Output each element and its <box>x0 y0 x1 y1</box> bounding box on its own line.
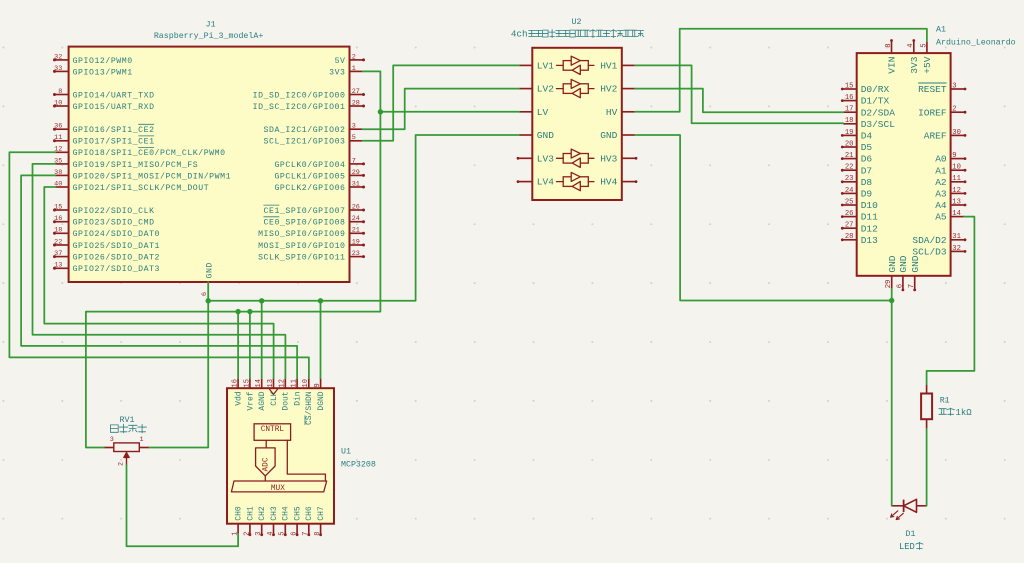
svg-text:Arduino_Leonardo: Arduino_Leonardo <box>936 38 1016 48</box>
svg-text:D7: D7 <box>861 165 872 176</box>
svg-text:GND: GND <box>537 130 554 141</box>
svg-text:33: 33 <box>54 65 62 73</box>
svg-text:A0: A0 <box>935 154 947 165</box>
svg-text:A1: A1 <box>936 26 946 35</box>
svg-text:13: 13 <box>952 198 961 206</box>
svg-text:DGND: DGND <box>317 391 326 410</box>
svg-text:CH2: CH2 <box>258 506 267 521</box>
svg-text:HV2: HV2 <box>600 84 617 95</box>
svg-text:HV3: HV3 <box>600 153 617 164</box>
svg-text:22: 22 <box>54 238 62 246</box>
svg-text:21: 21 <box>352 227 360 235</box>
svg-text:GPIO16/SPI1_CE2: GPIO16/SPI1_CE2 <box>73 125 155 135</box>
svg-text:D0/RX: D0/RX <box>861 84 890 95</box>
svg-text:7: 7 <box>352 157 356 165</box>
svg-text:CH0: CH0 <box>235 506 244 521</box>
svg-text:A4: A4 <box>935 200 947 211</box>
svg-text:RV1: RV1 <box>120 416 135 425</box>
svg-text:CNTRL: CNTRL <box>261 426 285 434</box>
svg-text:R1: R1 <box>940 397 950 406</box>
svg-text:GPIO13/PWM1: GPIO13/PWM1 <box>73 67 133 77</box>
svg-text:22: 22 <box>845 164 854 172</box>
svg-text:3: 3 <box>952 82 956 90</box>
svg-text:GPIO27/SDIO_DAT3: GPIO27/SDIO_DAT3 <box>73 264 160 274</box>
svg-text:D12: D12 <box>861 223 878 234</box>
svg-text:18: 18 <box>845 117 854 125</box>
svg-text:6: 6 <box>896 284 904 288</box>
svg-text:1: 1 <box>352 65 356 73</box>
svg-text:16: 16 <box>845 94 854 102</box>
svg-text:27: 27 <box>845 222 854 230</box>
svg-text:17: 17 <box>845 106 854 114</box>
svg-text:CH7: CH7 <box>317 506 326 521</box>
svg-text:GPCLK0/GPIO04: GPCLK0/GPIO04 <box>274 160 345 170</box>
svg-text:GND: GND <box>898 255 909 272</box>
svg-text:Vref: Vref <box>246 391 255 410</box>
svg-text:5: 5 <box>279 531 287 535</box>
svg-text:28: 28 <box>352 99 360 107</box>
svg-text:5: 5 <box>352 134 356 142</box>
svg-text:LV2: LV2 <box>537 84 554 95</box>
svg-text:3: 3 <box>352 123 356 131</box>
svg-text:13: 13 <box>54 262 62 270</box>
svg-text:12: 12 <box>279 379 287 387</box>
svg-text:LV3: LV3 <box>537 153 554 164</box>
svg-text:6: 6 <box>291 531 299 535</box>
svg-text:25: 25 <box>845 198 854 206</box>
svg-text:9: 9 <box>952 152 956 160</box>
svg-text:HV1: HV1 <box>600 61 617 72</box>
svg-text:CE0_SPI0/GPIO08: CE0_SPI0/GPIO08 <box>264 218 346 228</box>
svg-text:GPIO24/SDIO_DAT0: GPIO24/SDIO_DAT0 <box>73 229 160 239</box>
svg-text:15: 15 <box>243 379 251 387</box>
svg-text:19: 19 <box>845 129 854 137</box>
svg-text:CH4: CH4 <box>282 506 291 521</box>
svg-text:GPCLK1/GPIO05: GPCLK1/GPIO05 <box>274 171 345 181</box>
svg-text:36: 36 <box>54 123 62 131</box>
svg-text:26: 26 <box>352 203 360 211</box>
svg-text:MISO_SPI0/GPIO09: MISO_SPI0/GPIO09 <box>258 229 345 239</box>
svg-text:D1/TX: D1/TX <box>861 96 890 107</box>
svg-text:GND: GND <box>600 130 617 141</box>
svg-text:3V3: 3V3 <box>329 68 345 77</box>
svg-text:11: 11 <box>291 379 299 387</box>
svg-text:16: 16 <box>54 215 62 223</box>
svg-text:20: 20 <box>845 140 854 148</box>
svg-text:2: 2 <box>352 53 356 61</box>
svg-text:D11: D11 <box>861 212 878 223</box>
svg-text:18: 18 <box>54 227 62 235</box>
svg-text:8: 8 <box>58 88 62 96</box>
svg-text:D4: D4 <box>861 131 873 142</box>
svg-text:26: 26 <box>845 210 854 218</box>
svg-text:SCL_I2C1/GPIO03: SCL_I2C1/GPIO03 <box>264 137 346 147</box>
svg-text:GPIO18/SPI1_CE0/PCM_CLK/PWM0: GPIO18/SPI1_CE0/PCM_CLK/PWM0 <box>73 148 226 158</box>
svg-text:10: 10 <box>302 379 310 387</box>
svg-text:LV1: LV1 <box>537 61 554 72</box>
svg-text:12: 12 <box>952 187 961 195</box>
svg-text:Vdd: Vdd <box>235 391 244 406</box>
svg-text:D6: D6 <box>861 154 873 165</box>
svg-text:5V: 5V <box>335 57 346 66</box>
svg-text:D8: D8 <box>861 177 873 188</box>
svg-text:9: 9 <box>314 383 322 387</box>
svg-text:15: 15 <box>845 82 854 90</box>
svg-text:MUX: MUX <box>271 485 285 493</box>
svg-text:GPIO25/SDIO_DAT1: GPIO25/SDIO_DAT1 <box>73 241 160 251</box>
svg-text:GPIO20/SPI1_MOSI/PCM_DIN/PWM1: GPIO20/SPI1_MOSI/PCM_DIN/PWM1 <box>73 171 231 181</box>
svg-text:HV: HV <box>606 107 618 118</box>
svg-text:1kΩ: 1kΩ <box>956 408 973 418</box>
svg-text:LV: LV <box>537 107 549 118</box>
svg-text:29: 29 <box>885 280 893 289</box>
svg-text:7: 7 <box>302 531 310 535</box>
svg-text:ADC: ADC <box>263 457 271 471</box>
svg-text:11: 11 <box>952 175 961 183</box>
svg-text:GPIO12/PWM0: GPIO12/PWM0 <box>73 56 133 66</box>
svg-text:D9: D9 <box>861 189 873 200</box>
svg-text:GPIO21/SPI1_SCLK/PCM_DOUT: GPIO21/SPI1_SCLK/PCM_DOUT <box>73 183 210 193</box>
svg-text:4ch: 4ch <box>511 29 528 40</box>
svg-text:5: 5 <box>920 43 928 47</box>
svg-text:HV4: HV4 <box>600 177 617 188</box>
svg-text:RESET: RESET <box>918 84 947 95</box>
svg-text:CE1_SPI0/GPIO07: CE1_SPI0/GPIO07 <box>264 206 346 216</box>
svg-text:AGND: AGND <box>258 391 267 410</box>
svg-text:U1: U1 <box>341 448 351 457</box>
svg-text:D13: D13 <box>861 235 878 246</box>
svg-text:LED: LED <box>899 542 915 552</box>
svg-text:2: 2 <box>243 531 251 535</box>
svg-text:MCP3208: MCP3208 <box>341 461 376 470</box>
svg-text:SDA/D2: SDA/D2 <box>912 235 947 246</box>
svg-text:LV4: LV4 <box>537 177 554 188</box>
svg-text:3: 3 <box>110 436 114 444</box>
svg-text:A1: A1 <box>935 165 947 176</box>
svg-text:3V3: 3V3 <box>909 56 920 73</box>
svg-text:A2: A2 <box>935 177 947 188</box>
svg-text:CH1: CH1 <box>246 506 255 521</box>
svg-text:U2: U2 <box>572 18 582 27</box>
svg-text:2: 2 <box>117 462 125 466</box>
svg-text:19: 19 <box>352 238 360 246</box>
svg-text:13: 13 <box>267 379 275 387</box>
svg-text:Raspberry_Pi_3_modelA+: Raspberry_Pi_3_modelA+ <box>154 31 264 41</box>
svg-text:MOSI_SPI0/GPIO10: MOSI_SPI0/GPIO10 <box>258 241 345 251</box>
svg-text:D5: D5 <box>861 142 873 153</box>
svg-text:7: 7 <box>908 284 916 288</box>
svg-text:D10: D10 <box>861 200 878 211</box>
svg-text:1: 1 <box>139 436 143 444</box>
svg-text:GPIO22/SDIO_CLK: GPIO22/SDIO_CLK <box>73 206 155 216</box>
svg-text:27: 27 <box>352 88 360 96</box>
svg-text:GND: GND <box>887 255 898 272</box>
svg-text:GPIO26/SDIO_DAT2: GPIO26/SDIO_DAT2 <box>73 253 160 263</box>
svg-text:30: 30 <box>952 129 961 137</box>
svg-text:CH3: CH3 <box>270 506 279 521</box>
svg-text:CH6: CH6 <box>305 506 314 521</box>
svg-text:GND: GND <box>910 255 921 272</box>
svg-text:32: 32 <box>54 53 62 61</box>
svg-text:24: 24 <box>352 215 360 223</box>
svg-text:15: 15 <box>54 203 62 211</box>
svg-text:GPIO23/SDIO_CMD: GPIO23/SDIO_CMD <box>73 218 155 228</box>
svg-text:14: 14 <box>255 379 263 387</box>
svg-text:A3: A3 <box>935 189 947 200</box>
svg-text:32: 32 <box>952 245 961 253</box>
svg-text:D1: D1 <box>906 530 916 539</box>
svg-text:31: 31 <box>952 233 961 241</box>
svg-text:CH5: CH5 <box>294 506 303 521</box>
svg-text:11: 11 <box>54 134 62 142</box>
svg-text:29: 29 <box>352 169 360 177</box>
svg-text:+5V: +5V <box>922 56 933 73</box>
svg-text:24: 24 <box>845 187 854 195</box>
svg-text:2: 2 <box>952 106 956 114</box>
svg-text:AREF: AREF <box>924 131 947 142</box>
svg-text:4: 4 <box>267 531 275 535</box>
svg-text:Dout: Dout <box>282 391 291 410</box>
svg-text:21: 21 <box>845 152 854 160</box>
svg-text:4: 4 <box>907 43 915 47</box>
svg-text:28: 28 <box>845 233 854 241</box>
svg-text:23: 23 <box>352 250 360 258</box>
svg-text:D2/SDA: D2/SDA <box>861 107 896 118</box>
svg-text:ID_SC_I2C0/GPIO01: ID_SC_I2C0/GPIO01 <box>253 102 346 112</box>
svg-text:31: 31 <box>352 180 360 188</box>
svg-text:A5: A5 <box>935 212 947 223</box>
svg-text:SDA_I2C1/GPIO02: SDA_I2C1/GPIO02 <box>264 125 346 135</box>
svg-text:GPIO19/SPI1_MISO/PCM_FS: GPIO19/SPI1_MISO/PCM_FS <box>73 160 199 170</box>
svg-text:10: 10 <box>952 164 961 172</box>
svg-text:16: 16 <box>232 379 240 387</box>
svg-text:GPCLK2/GPIO06: GPCLK2/GPIO06 <box>274 183 345 193</box>
svg-text:GPIO14/UART_TXD: GPIO14/UART_TXD <box>73 90 155 100</box>
svg-text:IOREF: IOREF <box>918 107 947 118</box>
svg-text:GPIO15/UART_RXD: GPIO15/UART_RXD <box>73 102 155 112</box>
svg-text:Din: Din <box>294 391 303 406</box>
svg-text:14: 14 <box>952 210 961 218</box>
svg-text:D3/SCL: D3/SCL <box>861 119 896 130</box>
svg-text:GND: GND <box>205 262 214 278</box>
svg-text:23: 23 <box>845 175 854 183</box>
svg-text:GPIO17/SPI1_CE1: GPIO17/SPI1_CE1 <box>73 137 155 147</box>
svg-text:10: 10 <box>54 99 62 107</box>
svg-text:8: 8 <box>885 43 893 47</box>
svg-text:VIN: VIN <box>887 57 898 74</box>
svg-text:J1: J1 <box>206 20 216 29</box>
svg-text:37: 37 <box>54 250 62 258</box>
svg-text:SCLK_SPI0/GPIO11: SCLK_SPI0/GPIO11 <box>258 253 345 263</box>
svg-text:3: 3 <box>255 531 263 535</box>
svg-text:8: 8 <box>314 531 322 535</box>
svg-text:CS/SHDN: CS/SHDN <box>305 391 314 425</box>
svg-text:ID_SD_I2C0/GPIO00: ID_SD_I2C0/GPIO00 <box>253 90 346 100</box>
